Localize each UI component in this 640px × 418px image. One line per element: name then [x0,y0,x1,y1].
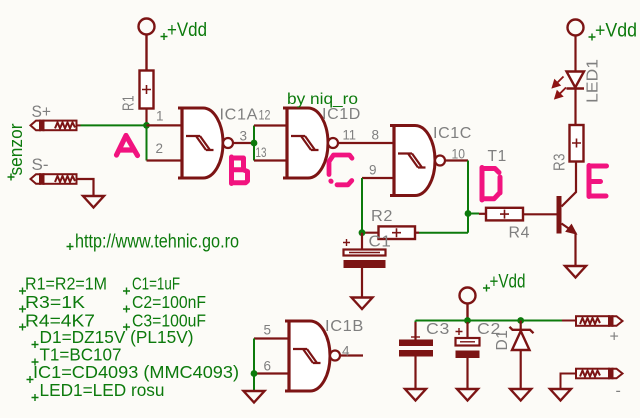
resistor R4 [479,208,557,221]
ground (S-) [83,196,104,208]
junction node (pin9 / R2 / C1) [359,229,366,236]
svg-text:-: - [616,383,621,400]
svg-text:1: 1 [156,109,164,124]
wire pin5 IC1B [254,337,289,339]
value list line R1=R2=1M [19,274,107,295]
svg-text:8: 8 [372,128,380,143]
label senzor (rotated, green) [6,123,26,180]
ground (C2) [457,389,478,401]
connector S- [31,174,77,184]
ground (output -) [550,389,571,401]
wire S+ to node A junction (green) [81,124,147,126]
svg-text:12: 12 [259,108,271,123]
letter B (magenta) [232,157,248,184]
wire R2 right to branch (green) [419,232,468,234]
letter C (magenta) [329,155,352,185]
wire pin13 IC1D [254,159,287,161]
svg-text:IC1=CD4093 (MMC4093): IC1=CD4093 (MMC4093) [33,362,239,382]
svg-text:2: 2 [156,141,164,156]
junction node (pin5/pin6/gnd) [251,370,258,377]
svg-text:IC1C: IC1C [433,125,472,142]
resistor R3 [570,125,584,162]
label +Vdd (bottom) [483,272,526,293]
wire S- to ground [77,179,94,196]
svg-text:R3=1K: R3=1K [25,292,85,312]
nand gate IC1C [390,124,445,196]
wire junction down (green) [146,125,148,160]
value list line R4=4K7 [19,311,95,331]
label +Vdd (left) [161,20,208,41]
wire IC1B bracket down to ground (green) [253,339,255,392]
wire IC1C output [445,159,468,161]
capacitor C2 (polarized) [456,322,480,389]
junction node (bus/C2/Vdd) [464,317,471,324]
led LED1 [567,36,585,126]
svg-text:10: 10 [452,147,466,162]
label +Vdd (top right) [589,21,638,42]
capacitor C3 [399,322,433,389]
svg-text:R4: R4 [509,225,531,242]
svg-text:T1: T1 [488,148,507,165]
wire junction to R4 (green) [468,213,479,215]
resistor R1 [140,71,154,126]
nand gate IC1D [283,107,338,179]
svg-text:R2: R2 [371,208,393,225]
nand gate IC1A [178,107,233,179]
junction node (bus/D1) [517,317,524,324]
svg-text:C1=1uF: C1=1uF [132,274,180,294]
wire IC1D output to IC1C pin8 [338,142,394,144]
svg-text:+: + [610,329,619,346]
svg-text:11: 11 [343,128,357,143]
ground (C3) [405,389,426,401]
svg-text:+Vdd: +Vdd [490,272,526,293]
power symbol +Vdd (bottom) [460,288,476,321]
svg-text:D1: D1 [494,330,511,351]
svg-text:C1: C1 [369,234,392,251]
junction node (IC1C out / R4 / R2) [465,210,472,217]
junction node (R1/S+/gate inputs) [143,122,150,129]
svg-text:S+: S+ [32,102,52,121]
label http://www.tehnic.go.ro [67,232,240,253]
wire pin6 IC1B [254,372,289,374]
svg-text:+Vdd: +Vdd [167,20,207,41]
svg-text:R1: R1 [121,95,138,111]
value list line LED1=LED rosu [32,380,165,401]
svg-text:4: 4 [342,344,350,359]
wire bracket vertical (green) [253,126,255,161]
value list line D1=DZ15V (PL15V) [32,327,194,348]
power symbol +Vdd (left, above R1) [139,19,155,71]
wire pin2 IC1A [147,159,183,161]
value list line T1=BC107 [32,345,122,366]
svg-text:S-: S- [32,155,49,174]
wire IC1B output pin4 [340,354,363,356]
value list line IC1=CD4093 (MMC4093) [27,362,240,383]
svg-text:R3: R3 [552,153,569,171]
value list line R3=1K [19,292,85,313]
svg-text:http://www.tehnic.go.ro: http://www.tehnic.go.ro [75,232,239,253]
svg-text:C3: C3 [426,321,450,338]
svg-text:LED1=LED rosu: LED1=LED rosu [40,380,165,400]
led light arrows [553,77,566,99]
connector S+ [31,121,81,131]
svg-text:R1=R2=1M: R1=R2=1M [25,274,107,294]
value list line C1=1uF [123,274,180,295]
svg-text:13: 13 [256,145,267,160]
svg-text:LED1: LED1 [585,59,602,103]
svg-text:+Vdd: +Vdd [595,21,637,42]
wire gate A output to node [233,142,254,144]
junction node (pin3 to pins 12/13) [251,140,258,147]
svg-text:IC1D: IC1D [322,106,361,123]
connector output + [562,316,623,326]
ground (IC1B inputs) [244,391,265,403]
svg-text:IC1B: IC1B [325,318,364,335]
transistor T1 (NPN) [557,162,577,267]
ground (C1) [352,298,373,310]
value list line C2=100nF [123,292,206,313]
capacitor C1 (polarized) [343,233,386,298]
wire pin1 IC1A [147,124,183,126]
ground (emitter) [565,266,586,278]
svg-text:C2=100nF: C2=100nF [132,292,206,312]
pin 9 wire into IC1C [362,177,394,179]
nand gate IC1B [285,320,340,392]
wire bottom supply bus (green) [416,321,564,325]
letter A (magenta) [117,136,138,156]
svg-text:senzor: senzor [6,123,26,175]
ground (D1) [510,389,531,401]
value list line C3=100uF [123,311,206,331]
wire pin9 down to R2 node (green) [361,178,363,233]
svg-text:6: 6 [264,359,272,374]
letter E (magenta) [589,166,607,197]
svg-text:by niq_ro: by niq_ro [287,91,358,108]
svg-text:5: 5 [264,323,272,338]
svg-text:IC1A: IC1A [220,107,259,124]
wire output down to R2 branch (green) [467,161,469,233]
svg-text:3: 3 [240,129,248,144]
letter D (magenta) [482,168,500,201]
svg-text:9: 9 [369,163,377,178]
zener diode D1 [510,321,534,390]
resistor R2 [362,226,419,239]
connector output - [561,369,623,389]
power symbol +Vdd (top right) [568,20,584,36]
wire pin12 IC1D [254,124,287,126]
